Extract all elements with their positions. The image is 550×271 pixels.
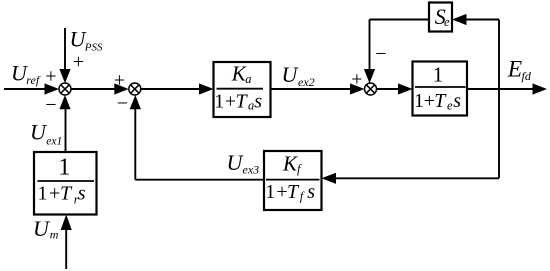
svg-text:T: T bbox=[287, 181, 300, 203]
wire output node to B3 bbox=[335, 177, 499, 179]
svg-text:−: − bbox=[375, 43, 386, 65]
arrowhead S_e into J3 top bbox=[364, 69, 375, 83]
summing junction J3 bbox=[365, 83, 377, 95]
wire output node to S_e bbox=[466, 19, 499, 21]
summing junction J1 bbox=[59, 83, 71, 95]
svg-text:1: 1 bbox=[414, 90, 424, 112]
block B5 S_e bbox=[429, 3, 452, 32]
wire J1 to J2 bbox=[71, 88, 116, 90]
wire U_PSS input bbox=[64, 28, 66, 71]
label U_PSS bbox=[70, 27, 104, 54]
wire U_m input bbox=[65, 228, 67, 269]
svg-text:+: + bbox=[225, 91, 236, 113]
arrowhead into J3 bbox=[350, 83, 365, 94]
wire B3 feedback up to J2 bbox=[134, 108, 136, 180]
svg-text:PSS: PSS bbox=[84, 42, 103, 54]
arrowhead into J2 bbox=[114, 83, 129, 94]
arrowhead U_ex1 into J1 bottom bbox=[59, 95, 70, 109]
svg-text:ex2: ex2 bbox=[298, 75, 315, 89]
label U_ex1 bbox=[30, 120, 62, 148]
svg-text:1: 1 bbox=[265, 181, 275, 203]
svg-text:−: − bbox=[45, 94, 56, 116]
svg-text:+: + bbox=[45, 66, 56, 88]
label U_ex2 bbox=[282, 62, 315, 89]
svg-text:U: U bbox=[282, 62, 300, 87]
svg-text:T: T bbox=[236, 91, 249, 113]
svg-text:s: s bbox=[78, 183, 86, 205]
svg-text:−: − bbox=[117, 92, 128, 114]
svg-text:m: m bbox=[50, 228, 59, 242]
arrowhead U_m into B4 bottom bbox=[61, 215, 72, 231]
wire S_e output down to J3 bbox=[369, 20, 371, 72]
arrowhead output E_fd bbox=[533, 83, 548, 94]
svg-text:+: + bbox=[73, 51, 84, 73]
svg-text:U: U bbox=[33, 216, 51, 241]
svg-text:E: E bbox=[507, 56, 522, 82]
svg-text:+: + bbox=[424, 90, 435, 112]
wire U_ref input bbox=[4, 88, 46, 90]
block B1 K_a/(1+T_a s) bbox=[214, 61, 271, 117]
arrowhead into B3 right side bbox=[322, 173, 337, 184]
svg-text:1: 1 bbox=[38, 183, 48, 205]
arrowhead feedback into J2 bottom bbox=[130, 95, 141, 109]
svg-text:ref: ref bbox=[26, 73, 41, 87]
svg-text:e: e bbox=[447, 99, 453, 113]
label U_m bbox=[33, 216, 59, 242]
wire J2 to B1 bbox=[141, 88, 202, 90]
summing junction J2 bbox=[129, 83, 141, 95]
wire node vertical at output bbox=[498, 20, 500, 179]
svg-text:fd: fd bbox=[522, 69, 532, 83]
svg-text:U: U bbox=[30, 120, 48, 145]
block B4 1/(1+T_r s) bbox=[34, 152, 97, 215]
svg-text:s: s bbox=[453, 90, 461, 112]
wire B3 output left bbox=[135, 179, 264, 181]
svg-text:K: K bbox=[282, 152, 298, 176]
svg-text:s: s bbox=[307, 181, 315, 203]
svg-text:+: + bbox=[351, 68, 362, 90]
svg-text:1: 1 bbox=[433, 63, 444, 87]
label U_ex3 bbox=[227, 150, 260, 177]
block B2 1/(1+T_e s) bbox=[413, 62, 468, 116]
svg-text:+: + bbox=[276, 181, 287, 203]
arrowhead into S_e right side bbox=[452, 14, 467, 25]
arrowhead into B2 bbox=[398, 83, 413, 94]
arrowhead into J1 bbox=[45, 83, 60, 94]
svg-text:+: + bbox=[114, 70, 125, 92]
label U_ref bbox=[11, 61, 41, 88]
svg-text:e: e bbox=[444, 15, 450, 29]
block B3 K_f/(1+T_f s) bbox=[264, 151, 322, 210]
svg-text:T: T bbox=[60, 183, 73, 205]
svg-text:ex1: ex1 bbox=[46, 135, 62, 147]
svg-text:a: a bbox=[245, 72, 251, 86]
arrowhead U_PSS into J1 top bbox=[59, 69, 70, 83]
svg-text:1: 1 bbox=[58, 154, 70, 181]
wire J3 to B2 bbox=[377, 88, 401, 90]
wire U_ex1 from B4 to J1 bbox=[65, 108, 67, 153]
wire B2 to output bbox=[467, 88, 534, 90]
label E_fd bbox=[507, 56, 532, 83]
svg-text:s: s bbox=[254, 91, 262, 113]
svg-text:ex3: ex3 bbox=[243, 163, 260, 177]
wire B1 to J3 bbox=[271, 88, 353, 90]
svg-text:+: + bbox=[49, 183, 60, 205]
wire S_e output left bbox=[370, 19, 430, 21]
svg-text:T: T bbox=[434, 90, 447, 112]
arrowhead into B1 bbox=[199, 83, 214, 94]
svg-text:1: 1 bbox=[214, 91, 224, 113]
